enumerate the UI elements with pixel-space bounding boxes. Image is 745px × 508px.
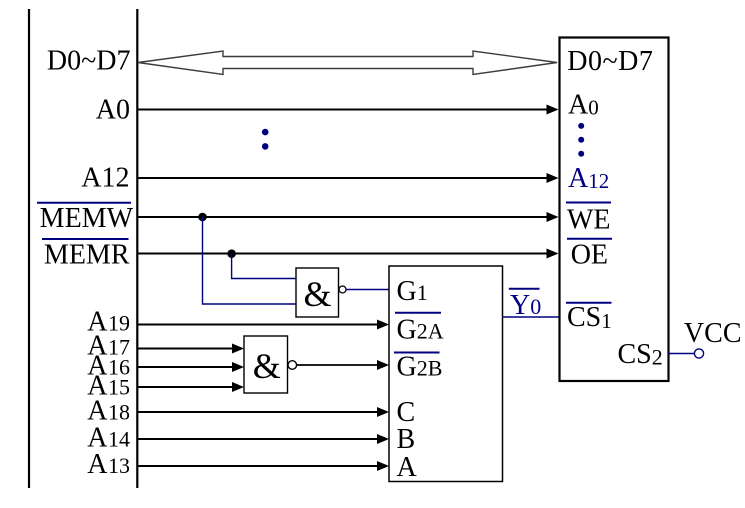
net label Y0 [509,289,541,321]
wire A0 [137,105,559,115]
ellipsis dots chip [578,123,584,157]
data bus double arrow [138,51,557,75]
wire A17 to U2 [137,344,244,354]
pin label CS1 [566,302,612,333]
pin label G2A [395,313,444,346]
svg-text:18: 18 [108,400,130,425]
svg-text:A: A [397,452,418,483]
nand gate U2 [244,336,288,393]
svg-text:&: & [303,274,331,314]
label A0 left [96,95,130,126]
label A15 left [87,371,130,402]
junction MEMW [198,213,207,222]
label D0~D7 left [47,46,131,77]
wire Y0 to CS1 [503,316,560,318]
label A18 left [87,396,130,427]
wire A14 to B [137,434,389,444]
svg-text:G2B: G2B [397,352,443,383]
memory chip U4 [560,38,669,382]
label A17 left [87,331,130,362]
svg-text:A0: A0 [96,95,130,126]
pin label C [397,397,416,428]
pin label G1 [397,276,428,307]
wire MEMW to U1 input [203,217,297,304]
label A12 left [81,163,129,194]
wire A16 to U2 [137,362,244,372]
nand gate U1 [296,268,339,317]
svg-text:D0~D7: D0~D7 [47,46,131,77]
svg-text:G2A: G2A [397,315,444,346]
svg-text:D0~D7: D0~D7 [567,46,653,77]
svg-text:A: A [87,449,108,480]
U2 output bubble [288,361,297,370]
wire A18 to C [137,407,389,417]
decoder U3 74LS138 [389,266,503,482]
wire MEMW [137,212,559,222]
pin label G2B [394,352,442,383]
U1 output bubble [339,286,346,293]
pin label A0 chip [568,90,599,121]
ellipsis dots left [262,129,269,150]
wire CS2 to VCC [668,353,694,355]
label MEMR left [42,239,130,271]
svg-text:15: 15 [108,375,130,400]
pin label D0~D7 chip [567,46,653,77]
wire A13 to A [137,461,389,471]
junction MEMR [227,249,236,258]
svg-text:WE: WE [567,205,611,236]
svg-text:&: & [253,346,281,386]
pin label A [397,452,418,483]
bus line left [28,9,30,488]
wire MEMR to U1 input [232,254,296,279]
svg-text:CS2: CS2 [618,339,663,370]
VCC open terminal [694,349,703,358]
wire A12 [137,173,559,183]
label A19 left [87,307,130,338]
wire A15 to U2 [137,382,244,392]
svg-text:MEMW: MEMW [40,203,134,234]
bus line right [136,9,138,488]
pin label CS2 [618,339,663,370]
label A14 left [87,423,130,454]
pin label OE [567,239,612,271]
svg-text:A12: A12 [81,163,129,194]
svg-text:13: 13 [108,453,130,478]
svg-text:G1: G1 [397,276,428,307]
pin label B [397,424,416,455]
label A13 left [87,449,130,480]
wire U2 output to G2B [297,360,389,370]
pin label A12 chip [568,163,609,194]
svg-text:VCC: VCC [684,318,742,349]
wire U1 output to G1 [346,289,389,291]
wire MEMR [137,249,559,259]
wire A19 to G2A [137,320,389,330]
svg-text:B: B [397,424,416,455]
svg-text:OE: OE [571,239,608,270]
svg-text:MEMR: MEMR [44,240,130,271]
label MEMW left [37,203,134,234]
svg-text:14: 14 [108,427,130,452]
label A16 left [87,351,130,382]
label VCC [684,318,742,349]
pin label WE [566,203,611,236]
svg-text:19: 19 [108,311,130,336]
